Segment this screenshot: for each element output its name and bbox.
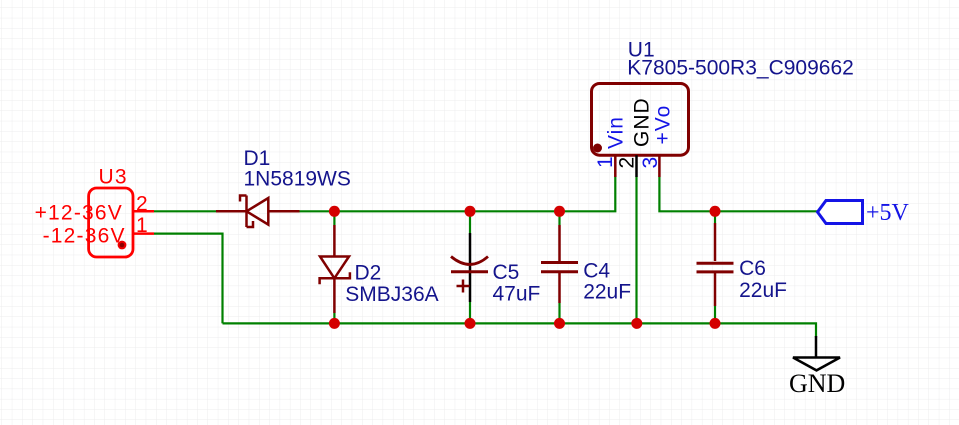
- wire C6 top stub: [714, 211, 716, 223]
- svg-text:SMBJ36A: SMBJ36A: [345, 283, 438, 306]
- wire D2 bottom stub: [333, 313, 335, 323]
- svg-text:Vin: Vin: [605, 116, 628, 149]
- svg-text:C6: C6: [739, 257, 766, 280]
- junction C6 bottom: [710, 318, 721, 329]
- capacitor C6: [697, 223, 734, 306]
- junction C5 bottom: [465, 318, 476, 329]
- junction C4 top: [554, 206, 565, 217]
- wire C4 bottom stub: [558, 303, 560, 323]
- wire C4 top stub: [558, 211, 560, 225]
- svg-text:+12-36V: +12-36V: [35, 201, 123, 224]
- wire C5 top stub: [469, 211, 471, 233]
- wire U3 pin2 to D1: [154, 210, 216, 212]
- svg-text:22uF: 22uF: [739, 279, 787, 302]
- capacitor C4: [541, 225, 578, 303]
- wire ground rail: [223, 323, 817, 337]
- svg-text:1N5819WS: 1N5819WS: [244, 167, 351, 190]
- svg-text:3: 3: [639, 157, 662, 169]
- svg-text:C5: C5: [493, 261, 520, 284]
- svg-text:D2: D2: [355, 262, 382, 285]
- junction D2 top: [329, 206, 340, 217]
- diode D1: [216, 196, 300, 228]
- connector U3: [89, 188, 154, 257]
- svg-text:2: 2: [136, 192, 149, 215]
- wire D1 to U1 pin1 (top rail): [300, 177, 616, 212]
- wire C6 bottom stub: [714, 306, 716, 323]
- svg-text:C4: C4: [583, 259, 610, 282]
- wire U3 pin1 down to ground rail: [154, 234, 223, 324]
- net flag +5V: [818, 201, 863, 224]
- junction C4 bottom: [554, 318, 565, 329]
- svg-text:1: 1: [136, 214, 149, 237]
- svg-text:+5V: +5V: [866, 200, 910, 226]
- junction C5 top: [465, 206, 476, 217]
- wire D2 top stub: [333, 211, 335, 225]
- TVS diode D2: [320, 225, 350, 313]
- svg-text:K7805-500R3_C909662: K7805-500R3_C909662: [627, 57, 854, 80]
- svg-text:22uF: 22uF: [583, 281, 631, 304]
- svg-text:2: 2: [616, 157, 639, 169]
- junction C6 top: [710, 206, 721, 217]
- regulator U1: [592, 84, 689, 178]
- svg-text:+Vo: +Vo: [652, 105, 675, 145]
- svg-text:-12-36V: -12-36V: [43, 225, 126, 248]
- svg-text:GND: GND: [789, 369, 845, 398]
- svg-text:1: 1: [594, 156, 617, 168]
- wire U1 pin2 down to ground rail: [635, 177, 637, 324]
- svg-text:GND: GND: [631, 97, 654, 147]
- wire C5 bottom stub: [469, 302, 471, 323]
- ground symbol GND: [793, 336, 840, 370]
- junction U1 pin2 bottom: [631, 318, 642, 329]
- junction D2 bottom: [329, 318, 340, 329]
- polarized capacitor C5: [451, 233, 488, 302]
- svg-text:47uF: 47uF: [493, 282, 541, 305]
- wire U1 pin3 to +5V flag: [659, 177, 817, 212]
- svg-text:U3: U3: [99, 166, 128, 189]
